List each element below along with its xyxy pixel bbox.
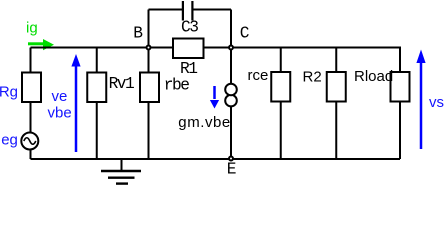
arrow vs (blue up) <box>416 50 425 150</box>
resistor Rg <box>22 73 41 103</box>
svg-text:ig: ig <box>26 20 38 37</box>
node B <box>147 46 151 50</box>
svg-text:rce: rce <box>248 67 269 84</box>
svg-text:E: E <box>227 161 236 179</box>
svg-text:B: B <box>133 25 143 43</box>
wire left branch Rg/eg <box>30 48 32 160</box>
resistor rce <box>271 72 290 102</box>
resistor rbe <box>140 73 159 103</box>
wire bottom rail <box>31 158 401 160</box>
resistor R2 <box>327 72 346 102</box>
svg-text:Rg: Rg <box>0 84 18 101</box>
svg-text:R1: R1 <box>180 60 197 78</box>
arrow ve/vbe (blue up) <box>71 54 80 152</box>
wire R2 branch <box>335 48 337 160</box>
arrow ig (green) <box>28 39 54 50</box>
resistor Rload <box>391 72 410 102</box>
wire C3 loop left <box>149 9 183 11</box>
svg-text:vbe: vbe <box>48 105 72 122</box>
wire Rv1 branch <box>96 48 98 160</box>
capacitor C3 <box>183 1 193 21</box>
wire node C vertical / current source branch <box>230 10 232 160</box>
svg-text:ve: ve <box>52 88 68 105</box>
ground <box>101 159 141 184</box>
svg-text:rbe: rbe <box>164 77 189 95</box>
resistor R1 <box>173 39 204 59</box>
svg-text:gm.vbe: gm.vbe <box>178 114 231 131</box>
arrow gm.vbe (blue down) <box>210 86 219 109</box>
svg-text:Rload: Rload <box>354 68 393 85</box>
svg-text:R2: R2 <box>303 69 322 86</box>
node C <box>229 46 233 50</box>
svg-text:C3: C3 <box>181 19 198 37</box>
svg-text:C: C <box>240 25 250 43</box>
svg-text:eg: eg <box>1 132 18 149</box>
source eg <box>21 133 38 150</box>
node E <box>229 157 233 161</box>
wire top rail <box>31 47 402 49</box>
svg-text:vs: vs <box>429 94 444 111</box>
wire C3 loop right <box>192 9 231 11</box>
resistor Rv1 <box>87 73 106 103</box>
wire Rload branch <box>399 48 401 160</box>
wire node B vertical / rbe branch <box>148 10 150 160</box>
svg-text:Rv1: Rv1 <box>109 75 134 93</box>
wire rce branch <box>280 48 282 160</box>
current source gm.vbe <box>225 84 237 107</box>
